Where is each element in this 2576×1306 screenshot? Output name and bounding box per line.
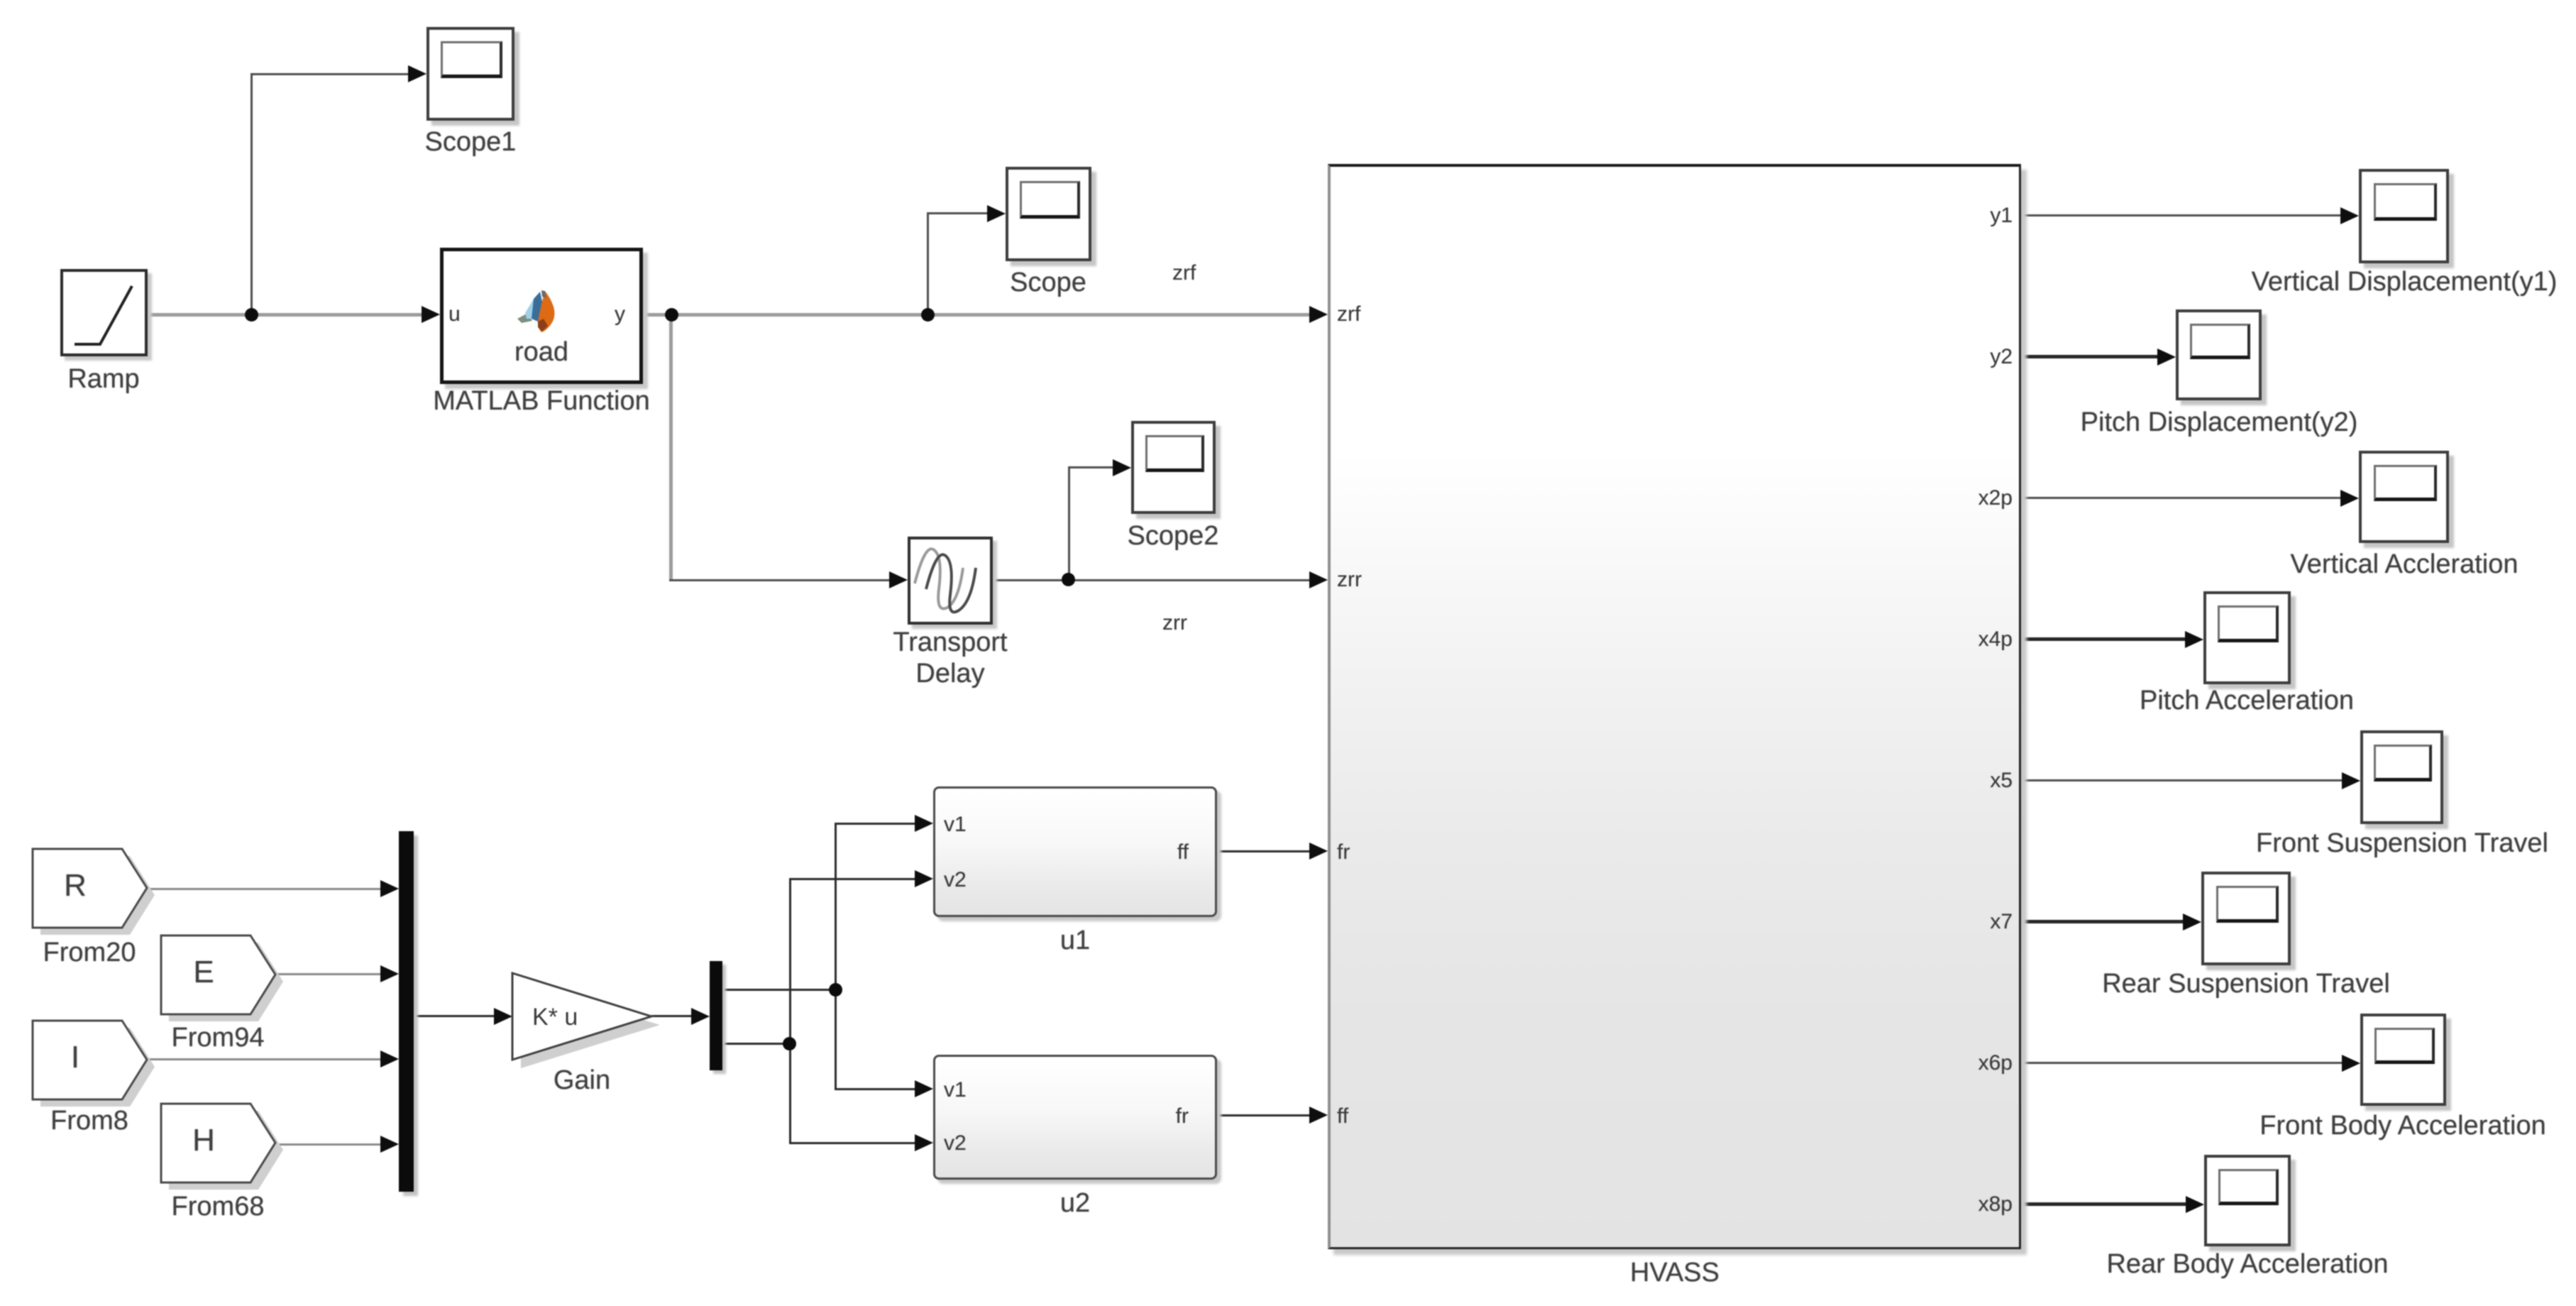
svg-text:K* u: K* u [532, 1004, 578, 1031]
